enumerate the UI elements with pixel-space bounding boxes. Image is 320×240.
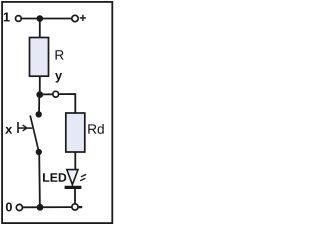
junction top [37, 15, 44, 22]
LED light arrow 1 [81, 174, 86, 177]
wire junction to resistor R [39, 19, 41, 39]
terminal 1 open circle [16, 16, 22, 22]
wire LED to minus terminal [74, 189, 76, 204]
resistor R [30, 38, 49, 77]
node x label [5, 127, 12, 134]
wire circle to Rd corner [59, 94, 76, 113]
switch x actuator rod [18, 127, 32, 129]
junction bottom [37, 204, 44, 211]
border frame [2, 2, 112, 223]
LED cathode bar [65, 186, 82, 189]
wire bottom horizontal [23, 206, 72, 208]
LED diode triangle [67, 170, 78, 185]
resistor Rd [66, 113, 85, 152]
switch x top contact [36, 111, 42, 117]
label R value [56, 50, 64, 59]
node test point open circle [53, 91, 59, 97]
node 0 label [6, 203, 12, 212]
wire top horizontal [21, 18, 71, 20]
terminal + open circle [72, 15, 78, 21]
wire junction to test circle [40, 93, 53, 95]
terminal 0 open circle [16, 204, 22, 210]
switch x actuator arrowhead [23, 125, 27, 131]
node y label [55, 73, 62, 82]
switch x blade [30, 115, 39, 151]
label Rd value [88, 124, 103, 134]
wire y-junction down to switch [38, 95, 40, 115]
node 1 (terminal label) [4, 12, 10, 21]
LED light arrow 2 [80, 178, 85, 181]
wire Rd to LED [74, 152, 76, 170]
wire resistor to node y junction [39, 76, 41, 94]
LED label [43, 173, 66, 181]
switch x actuator bar [17, 122, 19, 133]
node - label [79, 206, 82, 208]
node + label [80, 15, 86, 21]
switch x bottom contact [36, 149, 42, 155]
junction node y [36, 91, 43, 98]
wire switch to bottom rail [38, 152, 41, 207]
terminal - open circle [72, 204, 78, 210]
